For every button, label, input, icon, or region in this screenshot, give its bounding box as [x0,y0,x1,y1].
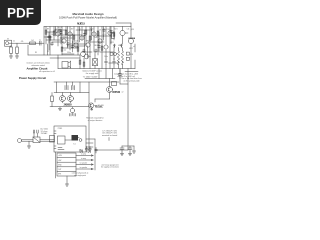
capacitor C27 [85,147,88,153]
transistor Q10 [108,31,112,35]
junction dot [57,57,60,60]
svg-text:47k: 47k [21,41,24,43]
right tiny labels [129,29,135,56]
svg-text:C9: C9 [99,29,101,31]
wire mesh v87.5 [87,46,89,58]
svg-text:1u: 1u [39,39,41,41]
note right of rail [82,70,139,78]
svg-text:IRF540: IRF540 [113,91,121,94]
svg-text:330p: 330p [67,52,71,54]
wire bottom rail [58,68,135,70]
svg-text:250VAC: 250VAC [41,132,48,135]
wire board out a [86,138,95,140]
junction dot [66,45,69,48]
small note [94,105,103,109]
wire cross 8 [83,55,85,57]
svg-text:Amplifier Circuit: Amplifier Circuit [27,67,48,71]
junction dots low [118,61,119,62]
wire mesh h42 [52,41,64,43]
transistor Q3 [68,32,72,36]
wire board out b [86,142,93,144]
wire mesh v67.5 [67,27,69,49]
svg-text:100n: 100n [87,56,91,58]
transistor Q8 [98,39,102,43]
resistor R14 [101,46,103,50]
resistor R1 [10,47,13,54]
svg-text:MJE15: MJE15 [77,22,85,25]
note C7 C8 [102,130,118,137]
wire branch x50 [49,27,51,56]
resistor R15 [113,32,115,36]
svg-text:100n: 100n [104,56,108,58]
wire mesh h38 [60,37,72,39]
junction dot [48,41,51,44]
capacitor C26 [37,130,38,133]
row labels [80,153,88,170]
wire zigzag leads [119,48,123,69]
wire Q20 Q21 leads [63,93,71,103]
wire mesh h36 [96,35,112,37]
svg-text:BC546: BC546 [74,40,79,42]
capacitor C31 [128,146,132,152]
wire branch x70 [69,27,71,51]
wire branch x78 [77,27,79,56]
resistor R9 [73,35,75,39]
capacitor Cm1 [60,31,63,34]
junction dot [71,41,74,44]
svg-text:1k: 1k [51,34,53,36]
wire cross 3 [46,39,62,41]
wire vert x95 [94,139,96,170]
wire chip link [65,138,79,141]
wire input line [9,42,44,44]
table note [72,172,89,177]
transistor Q4 [74,43,78,47]
wire mesh h42 [88,41,104,43]
wire cross 2 [58,34,82,36]
resistor R30 [51,96,54,102]
wire mesh v103.5 [103,27,105,41]
pins on box left [54,131,56,149]
sense box X [93,59,98,66]
note line 1 [26,61,55,73]
svg-text:mounted on board: mounted on board [102,134,117,137]
wire lower left rail [28,54,80,56]
speaker connector SP1 [62,62,68,69]
connector J1 [5,40,12,46]
transistor Q6 [86,43,90,47]
svg-text:R15: R15 [91,28,94,30]
transistor Q9 [104,45,108,49]
ground G1 [9,56,12,58]
junction dot [64,49,67,52]
diode D2 [80,150,82,153]
wire mains a [22,139,54,141]
wire mesh v55.5 [55,27,57,37]
resistor R2 [16,47,19,54]
wire branch x90 [89,27,91,69]
resistor R19 zigzag [121,58,123,65]
junction dot [83,45,86,48]
wire cross 5 [62,47,78,49]
wire lower mid verticals [80,55,84,69]
wire branch x62 [61,27,63,56]
svg-text:R21: R21 [115,28,118,30]
svg-text:the supply rails: the supply rails [86,72,99,75]
wire R2 leads [16,43,18,56]
wire branch x110 [109,27,111,69]
wire cross 11 [113,47,115,60]
resistor R5 [49,36,51,40]
plug P1 [17,138,21,142]
wire top rail [44,26,131,28]
wire table drop [66,176,68,184]
bottom right note [101,164,119,168]
PS notes [83,76,142,122]
wire cross 4 [70,43,86,45]
wire Q23 link [89,106,93,111]
junction dot [54,29,57,32]
wire PS right rail [85,78,115,80]
transistor Q21 [68,96,74,102]
wire board out c [86,146,93,148]
capacitor Cm2 [71,45,74,48]
svg-text:2k2: 2k2 [31,40,34,42]
wire mesh v99 [98,32,100,52]
svg-text:T1: 230V / 2x30V: T1: 230V / 2x30V [83,76,98,78]
wire mesh h52 [100,51,114,53]
junction dot [89,51,92,54]
switch S1 [112,82,117,86]
resistor R3 [30,42,36,45]
svg-text:one single point: one single point [74,174,86,177]
wire cross 10 [105,50,107,58]
capacitor C8 [105,60,108,65]
wire branch x102 [101,27,103,69]
capacitor Cm4 [98,45,101,48]
terminal table [57,153,76,176]
wire branch x58 [57,27,59,47]
wire branch x74 [73,27,75,45]
svg-text:C7: C7 [79,29,81,31]
wire mesh h30 [76,29,92,31]
svg-text:heatsinks: heatsinks [95,106,103,109]
svg-text:on the primary side: on the primary side [123,80,139,83]
transistor Q12 [128,38,133,43]
wire branch x114 [113,27,115,41]
wire cross 7 [50,57,80,59]
wire mains b [22,140,54,142]
wire neg rail stub [125,71,138,73]
connector K1 [50,136,55,143]
PDF badge [0,0,41,25]
wire PS link [120,79,128,85]
title block [59,12,117,19]
svg-text:2N3055: 2N3055 [64,104,73,106]
wire PS rail 2 [54,92,89,94]
wire cross 6 [82,51,92,53]
wire zigzag arrows [114,44,123,48]
junction dot [60,37,63,40]
wire row 4 arrow [76,168,93,169]
wire mesh v72.5 [72,34,74,52]
wire mesh v47.5 [47,44,49,55]
svg-text:0R22: 0R22 [110,42,114,44]
resistor R16 zigzag [117,51,119,58]
wire cross 9 [94,52,96,55]
svg-text:0R22: 0R22 [129,48,133,50]
svg-text:10k: 10k [63,36,66,38]
svg-text:Power Supply Circuit: Power Supply Circuit [19,76,46,80]
svg-text:100W Push Pull Power Mosfet Am: 100W Push Pull Power Mosfet Amplifier (M… [59,16,117,20]
wire right edge vertical [134,44,136,69]
wire PS verticals [57,82,90,150]
wire R30 leads [51,93,53,107]
wire PS top rail [54,81,119,83]
capacitor C3 [59,29,62,33]
svg-text:C2: C2 [47,51,49,53]
capacitor C9 [113,60,116,65]
capacitor C4 [67,42,70,46]
wire branch x94 [93,27,95,53]
resistor R6 [53,31,55,35]
wire mesh v79.5 [79,27,81,43]
capacitor C1 [40,41,42,45]
wire row 2 arrow [76,159,93,160]
capacitor C30 [120,146,124,152]
wire note pointer [108,138,110,141]
wire cap8 leads [105,58,107,69]
transistor Q22 [70,108,74,112]
wire branch x86 [85,27,87,47]
capacitor Cm3 [83,33,86,36]
wire mesh v49 [48,32,50,50]
filter block FL1 [33,137,40,143]
pad square B [126,57,129,60]
junction dot [90,29,93,32]
wire Q22 leads [72,107,74,116]
transistor Q24 [107,87,113,93]
board U1 [54,126,86,152]
wire PS rail 3 [50,106,89,108]
svg-text:R5: R5 [35,52,37,54]
resistor R22 [79,60,81,64]
wire row 1 arrow [76,155,93,156]
resistor R7 [61,47,63,51]
wire feedback drop [27,45,29,55]
wire mesh v111 [110,27,112,45]
svg-text:PCB1: PCB1 [58,128,62,130]
fuse F1 [118,74,122,76]
capacitor C2 [51,42,54,46]
svg-text:IC1: IC1 [73,144,76,146]
diode D1 [88,150,90,153]
resistor R18 zigzag [117,58,119,65]
svg-text:x2: x2 [122,92,124,94]
wire mesh v91.5 [91,27,93,41]
svg-text:Marshall Audio Design: Marshall Audio Design [72,12,103,16]
wire mesh h46 [68,45,84,47]
wire branch x46 [45,27,47,45]
wire top right segment [116,23,131,30]
plug note [40,129,48,135]
svg-text:4k7: 4k7 [71,28,74,30]
svg-text:BD139: BD139 [95,45,100,47]
part labels [7,27,135,58]
svg-text:otherwise noted: otherwise noted [31,64,44,67]
wire branch x82 [81,27,83,41]
transistor Q11 [120,30,125,35]
svg-text:C11: C11 [127,28,130,30]
transistor Q5 [80,36,84,40]
capacitor C29 [95,148,98,154]
transistor Q2 [62,39,66,43]
junction dot [102,35,105,38]
resistor R19 [112,33,115,39]
wire mesh v61 [60,30,62,44]
resistor R4 [45,30,47,34]
resistor R11 [85,30,87,34]
capacitor C21 [72,86,75,90]
transistor Q13 [81,52,86,57]
svg-text:R9: R9 [47,28,49,30]
ground G12 [65,184,68,186]
svg-text:PDF: PDF [7,6,34,21]
capacitor C25 [33,130,34,133]
ground G10 [59,107,61,109]
resistor R12 [89,36,91,40]
junction dot [98,41,101,44]
capacitor C5 [83,49,86,53]
specks bottom of box [58,148,64,150]
capacitor C6 [95,49,98,53]
wire branch x98 [97,27,99,56]
wire R1 leads [10,46,12,57]
svg-text:22k: 22k [83,35,86,37]
junction dot [78,29,81,32]
ground G2 [15,56,18,58]
IC chip U2 [72,135,79,141]
resistor R17 zigzag [121,51,123,58]
svg-text:for supply connections: for supply connections [101,166,119,169]
svg-text:C1: C1 [13,40,15,42]
wire fuse leads [119,70,121,79]
wire cross 1 [54,29,66,31]
svg-text:100n: 100n [79,150,83,152]
resistor R8 [65,30,67,34]
transistor Q23 [89,103,94,108]
wire branch x106 [105,27,107,45]
wire left lower rail [109,62,118,64]
capacitor C20 [65,86,68,90]
junction dot [110,35,113,38]
resistor R13 [97,31,99,35]
svg-text:C4: C4 [55,29,57,31]
wire Q24 leads [95,79,110,103]
wire caps top [122,146,134,151]
capacitor Cm0 [48,36,51,39]
wire mesh h32 [46,31,58,33]
wire mesh h54 [62,53,74,55]
transistor Q14 [84,54,89,59]
wire row 3 arrow [76,164,93,165]
pad circle [79,139,82,142]
pad square A [126,52,129,55]
transistor Q1 [56,32,60,36]
diode circle pair [110,52,113,55]
ground G14 [129,152,131,154]
svg-text:all output devices: all output devices [88,119,103,122]
wire left vertical [43,27,45,56]
transistor Q7 [92,32,96,36]
wire left edge double [54,152,56,178]
transistor Q20 [60,96,66,102]
wire Q11 leads [123,27,129,45]
wire Q12 drop [130,30,132,69]
svg-text:R12: R12 [67,40,70,42]
wire bottom rail link [57,55,59,69]
wire link caps [95,149,128,151]
wire mesh v84.5 [84,30,86,52]
ground G13 [121,152,123,154]
wire cap9 leads [113,58,115,69]
svg-text:OUT: OUT [58,169,61,171]
resistor R10 [77,47,79,51]
svg-text:x4: x4 [133,46,135,48]
wire PS right verticals [99,69,128,151]
ground G11 [28,141,30,146]
wire branch x66 [65,27,67,39]
capacitor C7 [103,29,106,33]
relay RL1 [58,136,66,144]
svg-text:R18: R18 [107,29,110,31]
capacitor C28 [89,147,92,153]
resistor R23 [83,62,85,66]
wire mesh h37 [44,36,52,38]
svg-text:K1058: K1058 [128,38,135,40]
wire branch x54 [53,27,55,41]
wire sense leads [94,55,96,69]
svg-text:47u: 47u [103,34,106,36]
ground G15 [132,151,135,153]
heatsink hatching [70,114,76,117]
capacitor Cm5 [110,30,113,33]
svg-text:0R22: 0R22 [118,45,122,47]
